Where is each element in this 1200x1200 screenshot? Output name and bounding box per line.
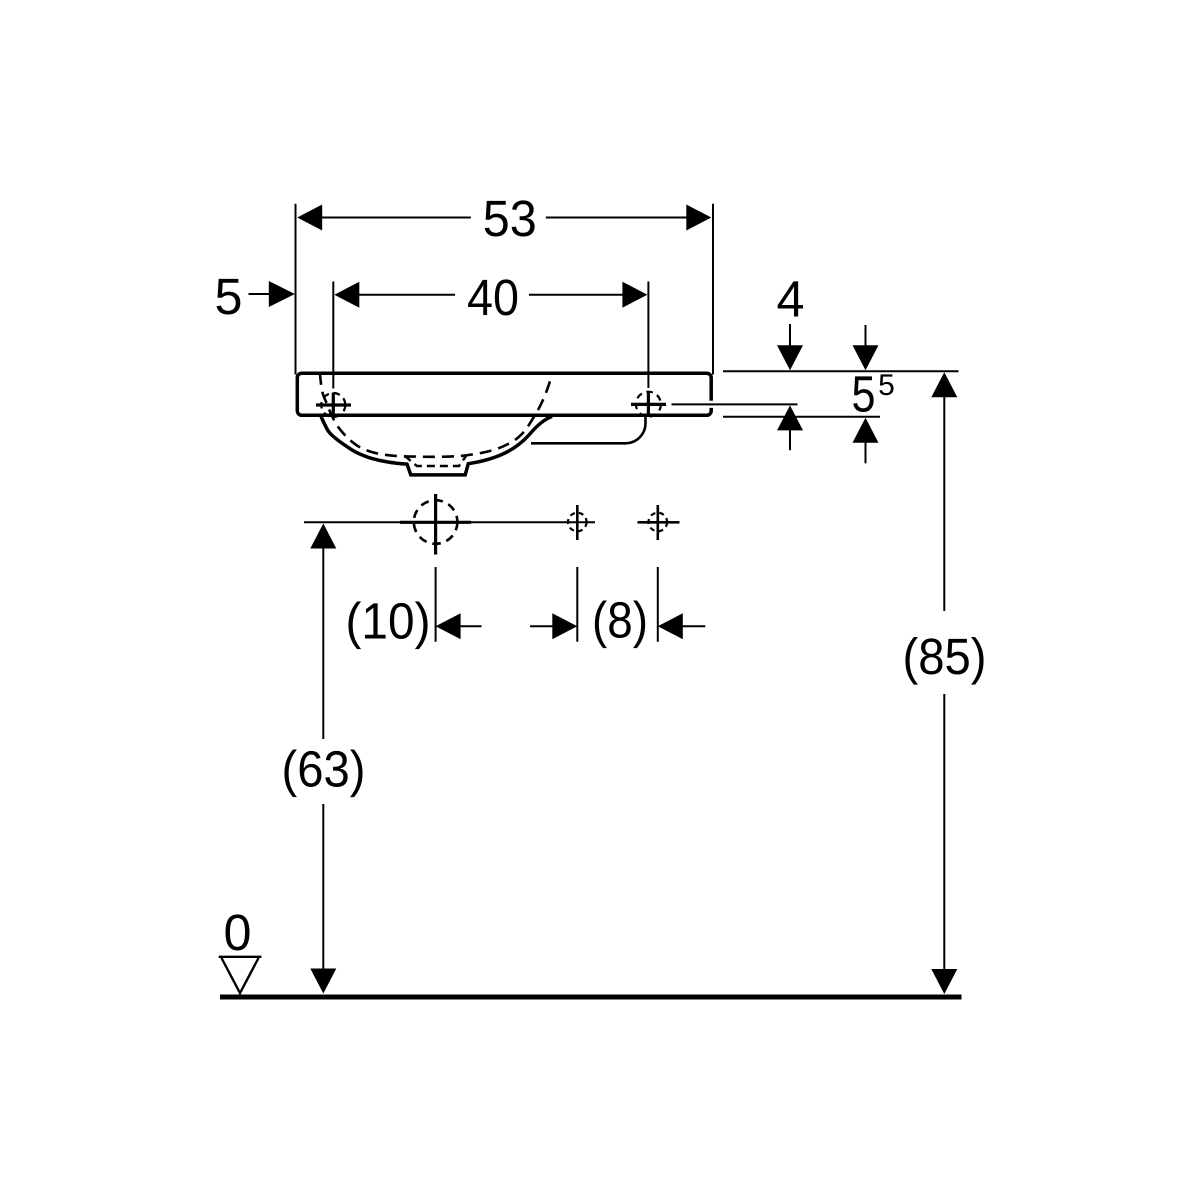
reference line B (tap hole level, to the right) — [672, 403, 798, 405]
dimension (85): line upper segment — [943, 396, 945, 611]
basin bowl solid outline — [321, 416, 552, 475]
dimension 4: upper arrowhead (down) — [777, 345, 803, 370]
basin inner dashed outline — [320, 373, 552, 457]
dimension (63): line lower segment — [322, 804, 324, 969]
dimension (85): lower arrowhead (down) — [931, 969, 957, 994]
dimension 5.5: lower arrowhead (up) — [853, 418, 879, 443]
svg-text:(85): (85) — [903, 628, 987, 685]
left tap hole: dashed circle — [321, 393, 345, 417]
reference line A (rim top level, to the right) — [723, 370, 959, 372]
dimension 53: right extension line — [712, 204, 714, 375]
dimension (85): line lower segment — [943, 694, 945, 970]
right tap hole: dashed circle — [636, 392, 661, 417]
dimension 53: left arrowhead — [297, 205, 322, 231]
right tap hole: cross horizontal — [631, 403, 666, 406]
dimension 40: left arrowhead — [334, 282, 359, 308]
svg-text:(8): (8) — [592, 592, 648, 649]
drain hole: cross vertical — [434, 494, 437, 555]
dimension 53: left extension line — [295, 204, 297, 375]
dimension 53: dimension line right segment — [546, 217, 689, 219]
left tap hole: cross horizontal — [316, 403, 351, 406]
dimension (85): upper arrowhead (up) — [931, 372, 957, 397]
fixing hole 2: dashed circle — [649, 513, 668, 532]
svg-text:(10): (10) — [346, 593, 431, 650]
svg-text:0: 0 — [224, 904, 252, 961]
basin drain recess hidden dashed edge — [405, 456, 467, 466]
drain hole: cross horizontal thick bar — [400, 521, 471, 524]
dimension (10)/(8): extension line below fixing hole 1 — [576, 567, 578, 642]
dimension (10)/(8): middle arrow tail — [530, 625, 553, 627]
dimension (63): line upper segment — [322, 548, 324, 740]
right tap hole: cross vertical — [647, 392, 650, 414]
datum 0: triangle symbol — [222, 958, 259, 993]
dimension (8): right arrow tail — [682, 625, 706, 627]
svg-text:5: 5 — [852, 365, 876, 422]
basin right shelf ledge outline — [531, 417, 646, 444]
drain hole: dashed circle — [414, 500, 458, 544]
dimension (8): extension line below fixing hole 2 — [657, 567, 659, 642]
dimension (10): left arrowhead — [436, 613, 461, 639]
dimension (10): extension line below drain — [435, 567, 437, 642]
dimension 5.5: lower arrow tail — [865, 442, 867, 464]
dimension 40: right arrowhead — [622, 282, 647, 308]
svg-text:5: 5 — [215, 268, 243, 325]
washbasin rim rectangle — [297, 373, 711, 415]
svg-text:53: 53 — [483, 190, 537, 247]
dimension 53: dimension line left segment — [320, 217, 471, 219]
fixing hole 1: dashed circle — [568, 513, 587, 532]
svg-text:4: 4 — [777, 271, 805, 328]
fixing hole 1: cross vertical — [576, 505, 579, 540]
dimension 40: left extension line — [332, 282, 334, 389]
floor ground line — [220, 995, 962, 1000]
dimension 5: arrow tail — [249, 293, 271, 295]
dimension (8): right arrowhead — [658, 613, 683, 639]
dimension 53: right arrowhead — [686, 205, 711, 231]
left tap hole: cross vertical — [332, 393, 335, 418]
dimension (10)/(8): middle arrowhead — [552, 613, 577, 639]
reference line C (rim bottom level, to the right) — [723, 416, 880, 418]
dimension 5: arrowhead — [269, 281, 295, 307]
datum 0: triangle top bar — [219, 956, 262, 958]
dimension 4: lower arrow tail — [789, 429, 791, 450]
svg-text:40: 40 — [467, 269, 519, 326]
svg-text:5: 5 — [878, 369, 895, 402]
dimension 5.5: upper arrowhead (down) — [853, 345, 879, 370]
dimension 4: lower arrowhead (up) — [777, 405, 803, 430]
fixing hole 2: cross vertical — [656, 505, 659, 540]
dimension 40: dimension line left segment — [358, 294, 455, 296]
white break in rim right edge where line B crosses — [709, 401, 716, 408]
dimension (10): left arrow tail — [460, 625, 482, 627]
dimension (63): upper arrowhead (up) — [310, 524, 336, 549]
drain centre line — [304, 521, 595, 523]
dimension (63): lower arrowhead (down) — [310, 969, 336, 994]
dimension 4: upper arrow tail — [789, 324, 791, 346]
dimension 5.5: upper arrow tail — [865, 325, 867, 346]
fixing hole 2: cross horizontal — [638, 521, 680, 524]
dimension 40: right extension line — [647, 282, 649, 389]
svg-text:(63): (63) — [282, 740, 366, 797]
dimension 40: dimension line right segment — [529, 294, 623, 296]
